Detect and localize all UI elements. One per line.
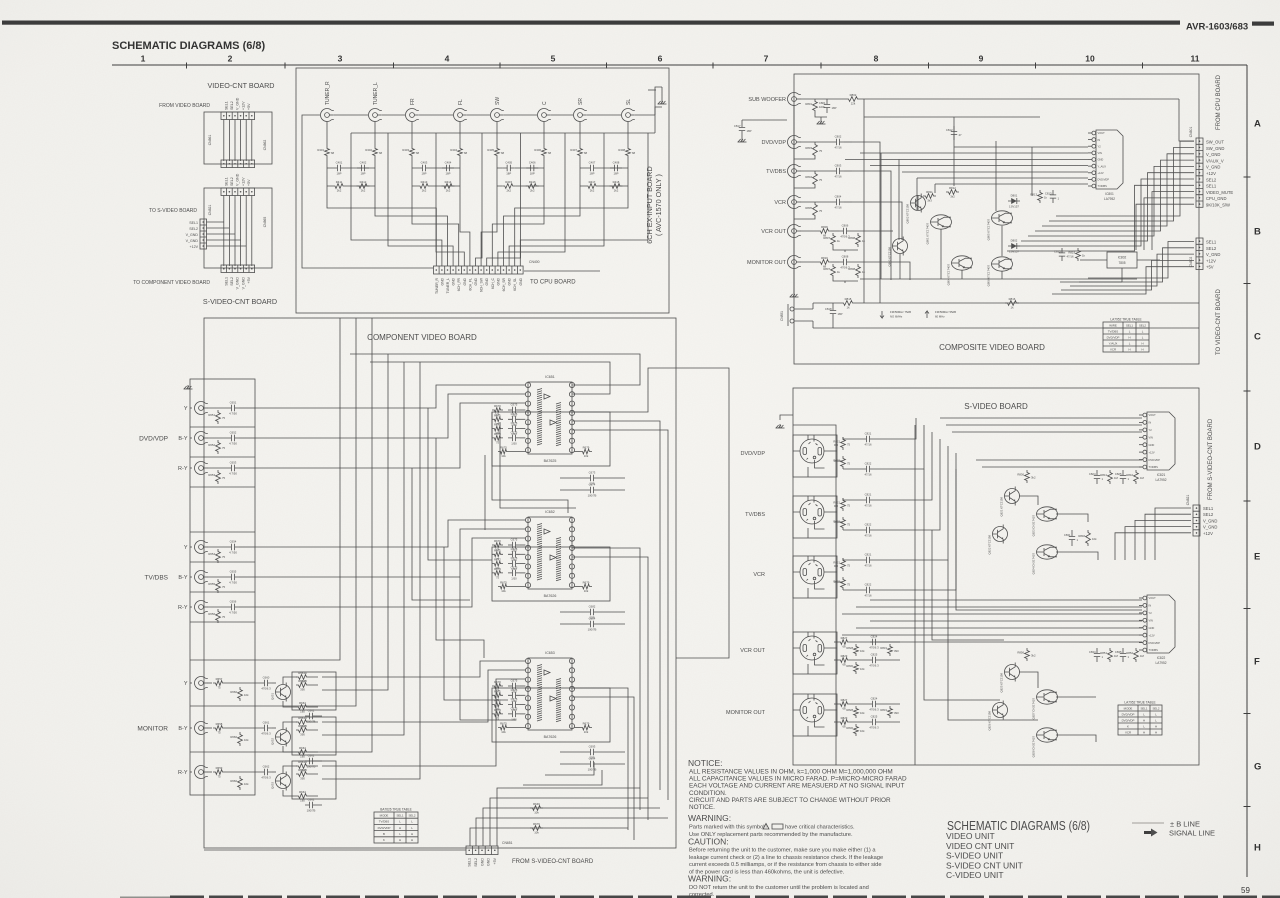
svg-text:2k2: 2k2 [422, 189, 427, 193]
component video board outline [204, 318, 676, 848]
svg-text:FM/56MHz 75dB: FM/56MHz 75dB [890, 310, 911, 314]
svg-text:V_GND: V_GND [236, 97, 240, 110]
svg-text:BA7626 TRUE TABLE: BA7626 TRUE TABLE [380, 808, 412, 812]
svg-text:C834: C834 [1089, 650, 1096, 654]
svg-text:BA7626: BA7626 [544, 594, 557, 598]
op-amp switch IC652 BA7626 [492, 510, 610, 601]
svg-text:Y2: Y2 [1149, 428, 1153, 432]
svg-text:H: H [1143, 730, 1145, 734]
svg-text:DVD/VDP: DVD/VDP [1107, 335, 1120, 339]
capacitor C812 [946, 126, 962, 140]
svg-text:V_GND: V_GND [186, 233, 199, 237]
svg-text:SEL1: SEL1 [189, 221, 198, 225]
svg-text:180: 180 [300, 799, 305, 803]
svg-text:WARNING:: WARNING: [688, 813, 731, 823]
svg-text:R804: R804 [805, 175, 812, 179]
svg-text:C655: C655 [230, 570, 237, 574]
svg-text:75: 75 [222, 446, 226, 450]
svg-text:GND: GND [440, 277, 444, 285]
svg-text:R-Y: R-Y [178, 770, 188, 776]
svg-text:C808: C808 [842, 255, 849, 259]
connector CN801 [1189, 127, 1203, 208]
svg-text:H: H [399, 826, 401, 830]
svg-text:3: 3 [338, 54, 343, 64]
svg-text:Y/AUX: Y/AUX [1109, 341, 1118, 345]
jack R-Y row 6 [178, 601, 208, 614]
ground 6ch board [648, 87, 667, 104]
svg-text:68: 68 [501, 151, 505, 155]
video switch IC821 LA7952 [1139, 412, 1175, 482]
label TO VIDEO-CNT BOARD [1216, 289, 1222, 355]
svg-text:1SV157: 1SV157 [1009, 250, 1019, 254]
svg-text:68: 68 [632, 151, 636, 155]
svg-text:R663A: R663A [298, 671, 307, 675]
svg-text:Q651: Q651 [271, 693, 275, 700]
connector CN400 pin labels [435, 277, 523, 294]
svg-text:SEL1: SEL1 [396, 813, 403, 817]
monitor drive circuit row 1 [208, 671, 337, 724]
svg-text:390: 390 [300, 777, 305, 781]
svg-text:R821: R821 [833, 440, 840, 444]
svg-text:VIDEO-CNT BOARD: VIDEO-CNT BOARD [208, 81, 275, 90]
svg-text:SEL1: SEL1 [1126, 323, 1133, 327]
svg-text:C824: C824 [1089, 472, 1096, 476]
svg-text:47/16: 47/16 [865, 443, 872, 447]
svg-text:CN865: CN865 [263, 217, 267, 228]
svg-text:10k: 10k [501, 589, 506, 593]
svg-text:R811: R811 [926, 190, 933, 194]
svg-text:TUNER_R: TUNER_R [325, 81, 331, 105]
svg-text:2k2: 2k2 [446, 189, 451, 193]
jack TUNER_L [369, 82, 382, 122]
svg-text:470/6.3: 470/6.3 [261, 776, 271, 780]
svg-text:DVD/VDP: DVD/VDP [1149, 458, 1161, 462]
connector CN822 pin labels [186, 221, 199, 249]
svg-text:C822: C822 [865, 523, 872, 527]
svg-text:R656: R656 [208, 612, 215, 616]
svg-text:3k2: 3k2 [1031, 476, 1036, 480]
s-video connector TV/DBS [745, 496, 837, 538]
svg-text:C682: C682 [589, 605, 596, 609]
svg-text:C405: C405 [505, 161, 512, 165]
svg-text:10k: 10k [860, 649, 865, 653]
svg-text:R670: R670 [494, 680, 501, 684]
svg-text:75: 75 [222, 555, 226, 559]
ground s-video [776, 415, 794, 428]
svg-text:Q802 KTC3198: Q802 KTC3198 [906, 204, 910, 224]
svg-text:SEL2: SEL2 [1152, 706, 1159, 710]
svg-text:R830: R830 [846, 664, 853, 668]
svg-text:+12V: +12V [1203, 531, 1213, 536]
svg-text:75: 75 [222, 585, 226, 589]
svg-text:SEL2: SEL2 [1139, 323, 1146, 327]
svg-text:+12V: +12V [190, 245, 199, 249]
capacitor C831 [1064, 530, 1079, 546]
svg-text:390: 390 [894, 711, 899, 715]
svg-text:10k: 10k [860, 729, 865, 733]
jack Y row 1 [184, 402, 208, 415]
svg-text:CPU_GND: CPU_GND [1206, 196, 1226, 201]
svg-text:VCR: VCR [1110, 347, 1116, 351]
top ruler with column numbers [112, 54, 1247, 69]
connector CN822 [200, 219, 207, 249]
resistor R818 [813, 297, 1199, 310]
svg-text:Q822 KTC3198: Q822 KTC3198 [988, 535, 992, 555]
svg-text:18P: 18P [838, 312, 843, 316]
svg-text:R842: R842 [1126, 473, 1133, 477]
svg-text:C656: C656 [230, 600, 237, 604]
svg-text:C825: C825 [1115, 472, 1122, 476]
svg-text:100/7B: 100/7B [307, 765, 316, 769]
6ch ex-input board outline [296, 68, 669, 313]
svg-text:CN851: CN851 [780, 311, 784, 321]
composite video board outline [794, 74, 1199, 364]
svg-text:18P: 18P [446, 172, 451, 176]
svg-text:Q828 CH31741S: Q828 CH31741S [1032, 736, 1036, 757]
svg-text:R807: R807 [823, 267, 830, 271]
transistor Q822 [988, 525, 1008, 555]
svg-text:H: H [1128, 335, 1130, 339]
svg-text:MODE: MODE [380, 813, 389, 817]
svg-text:R829: R829 [841, 716, 848, 720]
svg-text:R675: R675 [500, 581, 507, 585]
svg-text:C812: C812 [946, 128, 953, 132]
svg-text:GND: GND [474, 277, 478, 285]
svg-text:C661: C661 [263, 721, 270, 725]
svg-text:75: 75 [222, 416, 226, 420]
svg-text:R413: R413 [421, 180, 428, 184]
svg-text:68: 68 [464, 151, 468, 155]
svg-text:C-VIDEO UNIT: C-VIDEO UNIT [946, 870, 1004, 880]
svg-text:SEL1: SEL1 [225, 177, 229, 186]
routing wires s-video [793, 418, 1142, 765]
svg-text:C693: C693 [589, 745, 596, 749]
svg-text:GND: GND [452, 277, 456, 285]
svg-text:18P: 18P [590, 172, 595, 176]
svg-text:MONITOR OUT: MONITOR OUT [747, 260, 787, 266]
svg-text:C821: C821 [865, 493, 872, 497]
svg-text:R657: R657 [216, 677, 223, 681]
svg-text:10k: 10k [534, 811, 539, 815]
svg-text:VCR OUT: VCR OUT [740, 648, 765, 654]
svg-text:GND: GND [487, 858, 491, 866]
top rule bar [2, 21, 1180, 25]
s-video board title [964, 402, 1028, 411]
transistor Q828 [1032, 728, 1058, 758]
svg-text:C652: C652 [230, 431, 237, 435]
svg-text:Q805 KTC1740S: Q805 KTC1740S [987, 219, 991, 240]
svg-text:R671: R671 [494, 548, 501, 552]
svg-text:R416: R416 [529, 180, 536, 184]
connector CN802 [1189, 238, 1203, 270]
svg-text:10k: 10k [584, 454, 589, 458]
svg-text:R672: R672 [494, 558, 501, 562]
jack Y row 4 [184, 540, 208, 553]
svg-text:C818: C818 [825, 307, 832, 311]
svg-text:LA7952: LA7952 [1104, 197, 1115, 201]
svg-text:SCHEMATIC DIAGRAMS (6/8): SCHEMATIC DIAGRAMS (6/8) [112, 40, 266, 52]
svg-text:18P: 18P [832, 106, 837, 110]
svg-text:1SV157: 1SV157 [1009, 205, 1019, 209]
svg-text:R417: R417 [589, 180, 596, 184]
svg-text:NO 6MHz: NO 6MHz [890, 315, 903, 319]
transistor Q821 [1000, 487, 1020, 517]
s-video connector VCR [753, 556, 837, 598]
s-video board outline [793, 388, 1199, 765]
svg-text:18P: 18P [361, 172, 366, 176]
svg-text:H: H [1128, 347, 1130, 351]
svg-text:R-Y: R-Y [178, 605, 188, 611]
svg-text:VOUT: VOUT [1098, 131, 1106, 135]
svg-text:LA7952 TRUE TABLE: LA7952 TRUE TABLE [1124, 701, 1155, 705]
svg-text:NOTICE:: NOTICE: [688, 758, 722, 768]
svg-text:C402: C402 [360, 161, 367, 165]
svg-text:18P: 18P [506, 172, 511, 176]
rc networks 6ch channels [317, 122, 635, 197]
svg-text:C806: C806 [842, 224, 849, 228]
jack SR [574, 98, 587, 122]
jack VCR OUT [761, 225, 801, 238]
svg-text:FROM S-VIDEO-CNT BOARD: FROM S-VIDEO-CNT BOARD [1208, 418, 1214, 500]
svg-text:TV/DBS: TV/DBS [145, 575, 169, 582]
transistor Q824 [1032, 545, 1058, 575]
svg-text:4.7/50: 4.7/50 [229, 472, 237, 476]
svg-text:18P: 18P [337, 172, 342, 176]
svg-text:8: 8 [874, 54, 879, 64]
svg-text:2k2: 2k2 [590, 189, 595, 193]
s-video output networks [834, 635, 900, 737]
wire 6ch ground bus [351, 107, 662, 133]
svg-text:R673: R673 [494, 708, 501, 712]
svg-text:VOUT: VOUT [1149, 596, 1157, 600]
svg-text:+5V: +5V [1206, 265, 1214, 270]
svg-text:R816: R816 [1009, 297, 1016, 301]
svg-text:C824: C824 [871, 697, 878, 701]
svg-text:C675: C675 [511, 697, 518, 701]
svg-text:GND: GND [1149, 443, 1155, 447]
svg-text:C675: C675 [511, 421, 518, 425]
connector CN821 [1186, 495, 1200, 536]
svg-text:R649: R649 [533, 802, 540, 806]
svg-text:FROM S-VIDEO-CNT BOARD: FROM S-VIDEO-CNT BOARD [512, 859, 594, 865]
board title VIDEO-CNT BOARD [208, 81, 275, 90]
jack B-Y row 8 [178, 721, 207, 734]
label FROM S-VIDEO-CNT BOARD vertical [1208, 418, 1214, 500]
label FROM S-VIDEO-CNT BOARD [512, 859, 594, 865]
svg-text:TV/DBS: TV/DBS [745, 512, 765, 518]
input network VCR [794, 195, 852, 220]
svg-text:H: H [1254, 843, 1261, 854]
svg-text:11: 11 [1191, 54, 1200, 64]
svg-text:SEL2: SEL2 [189, 227, 198, 231]
composite board title [939, 343, 1045, 352]
page number 59 [1241, 886, 1250, 895]
svg-text:47/16: 47/16 [835, 175, 842, 179]
connector CN863 [221, 160, 255, 168]
svg-text:H: H [1141, 341, 1143, 345]
warning marks composite [880, 310, 956, 319]
svg-text:R803: R803 [805, 146, 812, 150]
svg-text:TO VIDEO-CNT BOARD: TO VIDEO-CNT BOARD [1216, 289, 1222, 355]
svg-text:75: 75 [222, 615, 226, 619]
s-video connector MONITOR OUT [726, 694, 837, 736]
svg-text:ALL CAPACITANCE VALUES IN MICR: ALL CAPACITANCE VALUES IN MICRO FARAD. P… [689, 776, 907, 783]
connector CN864 [221, 188, 255, 196]
svg-text:10k: 10k [860, 711, 865, 715]
6ch board title [645, 166, 663, 243]
svg-text:S-VIDEO-CNT BOARD: S-VIDEO-CNT BOARD [203, 297, 277, 306]
svg-text:D801: D801 [1011, 194, 1018, 198]
svg-text:H: H [1155, 724, 1157, 728]
svg-text:IN: IN [1098, 138, 1101, 142]
svg-text:DVD/VDP: DVD/VDP [1122, 718, 1135, 722]
svg-text:100k: 100k [819, 105, 826, 109]
svg-text:C813: C813 [1045, 192, 1052, 196]
svg-text:VIDEO CNT UNIT: VIDEO CNT UNIT [946, 841, 1014, 851]
jack B-Y row 2 [178, 432, 207, 445]
svg-text:A: A [1254, 119, 1261, 130]
truth table LA7952 s-video [1118, 701, 1162, 736]
wire 6ch jack bus [334, 87, 662, 115]
svg-text:1M: 1M [1140, 654, 1145, 658]
svg-text:R802: R802 [850, 93, 857, 97]
svg-text:C673: C673 [589, 471, 596, 475]
svg-text:GND: GND [508, 277, 512, 285]
svg-text:DVD/VDP: DVD/VDP [1149, 641, 1161, 645]
svg-text:470/6.3: 470/6.3 [869, 646, 879, 650]
svg-text:75: 75 [847, 583, 851, 587]
svg-text:Q824 CH31741S: Q824 CH31741S [1032, 553, 1036, 574]
svg-text:7805: 7805 [1118, 261, 1125, 265]
capacitor C817 [734, 120, 787, 142]
svg-text:R652: R652 [208, 443, 215, 447]
svg-text:R675: R675 [500, 722, 507, 726]
svg-text:CN821: CN821 [208, 205, 212, 216]
svg-text:75: 75 [847, 504, 851, 508]
svg-text:10k: 10k [244, 693, 249, 697]
jack FL [454, 99, 467, 122]
group label MONITOR [137, 726, 168, 733]
svg-text:R816: R816 [821, 256, 828, 260]
svg-text:C831: C831 [1064, 533, 1071, 537]
svg-text:R670: R670 [494, 404, 501, 408]
group label DVD/VDP [139, 436, 168, 443]
svg-text:47/16: 47/16 [835, 146, 842, 150]
svg-text:R655: R655 [208, 582, 215, 586]
svg-text:TUNER_R: TUNER_R [435, 277, 439, 294]
svg-text:COMPONENT VIDEO BOARD: COMPONENT VIDEO BOARD [367, 333, 477, 342]
s-video connector DVD/VDP [741, 435, 837, 477]
svg-text:TO S-VIDEO BOARD: TO S-VIDEO BOARD [149, 208, 197, 214]
svg-text:K: K [383, 838, 385, 842]
svg-text:75: 75 [819, 178, 823, 182]
wire bus video-cnt lower [224, 196, 252, 267]
svg-text:+12V: +12V [1206, 258, 1216, 263]
svg-text:H: H [411, 832, 413, 836]
connector CN801 pin labels [1206, 140, 1233, 208]
jack B-Y row 5 [178, 571, 207, 584]
video switch IC801 LA7952 [1088, 130, 1123, 201]
svg-text:R830: R830 [846, 726, 853, 730]
svg-text:CN400: CN400 [529, 260, 540, 264]
routing wires composite [845, 117, 1137, 303]
svg-text:100/7B: 100/7B [307, 720, 316, 724]
transistor Q804 [947, 256, 973, 286]
svg-text:Q823 CH31741S: Q823 CH31741S [1032, 515, 1036, 536]
svg-text:R408: R408 [618, 148, 625, 152]
svg-text:Q652: Q652 [271, 738, 275, 745]
svg-text:SEL1: SEL1 [1206, 240, 1217, 245]
svg-text:C821: C821 [865, 553, 872, 557]
svg-text:SW_OUT: SW_OUT [1206, 140, 1224, 145]
svg-text:390: 390 [300, 733, 305, 737]
resistor R856 [1017, 648, 1036, 661]
ground verticals 6ch [351, 133, 604, 186]
wires s-video to CN821 [1115, 508, 1191, 560]
wire 6ch left edge [302, 115, 433, 268]
svg-text:C684: C684 [589, 617, 596, 621]
subwoofer input network [801, 93, 1195, 141]
svg-text:C661: C661 [308, 798, 315, 802]
svg-text:VCR: VCR [774, 200, 786, 206]
svg-text:Q826 KTC3198: Q826 KTC3198 [988, 711, 992, 731]
svg-text:75: 75 [819, 149, 823, 153]
svg-text:± B LINE: ± B LINE [1170, 820, 1200, 829]
transistor Q803 [888, 237, 908, 267]
svg-text:WIRE: WIRE [1109, 323, 1117, 327]
jack R-Y row 3 [178, 462, 208, 475]
svg-text:75: 75 [847, 443, 851, 447]
svg-text:C401: C401 [336, 161, 343, 165]
svg-text:ALL RESISTANCE VALUES IN OHM,: ALL RESISTANCE VALUES IN OHM, k=1,000 OH… [689, 769, 893, 776]
svg-text:TV/DBS: TV/DBS [766, 169, 786, 175]
svg-text:R818: R818 [845, 297, 852, 301]
svg-text:10k: 10k [584, 589, 589, 593]
svg-text:MONITOR: MONITOR [137, 726, 168, 733]
svg-text:R406: R406 [534, 148, 541, 152]
svg-text:R679: R679 [583, 722, 590, 726]
svg-text:AVR-1603/683: AVR-1603/683 [1186, 22, 1248, 33]
svg-text:COMPOSITE VIDEO BOARD: COMPOSITE VIDEO BOARD [939, 343, 1045, 352]
svg-text:C407: C407 [589, 161, 596, 165]
svg-text:V_GND: V_GND [236, 277, 240, 290]
svg-text:47/16: 47/16 [1067, 255, 1074, 259]
svg-text:R658: R658 [216, 722, 223, 726]
jack TV/DBS [766, 165, 801, 178]
svg-text:S-VIDEO CNT UNIT: S-VIDEO CNT UNIT [946, 860, 1023, 870]
output network MONITOR OUT [801, 255, 881, 284]
svg-text:1/50: 1/50 [511, 441, 517, 445]
svg-text:IC801: IC801 [1105, 192, 1114, 196]
svg-text:C822: C822 [865, 462, 872, 466]
svg-text:MODE: MODE [1124, 706, 1133, 710]
svg-text:V_GND: V_GND [1203, 525, 1217, 530]
svg-text:IC651: IC651 [545, 375, 555, 379]
svg-text:47/16: 47/16 [865, 473, 872, 477]
svg-text:G: G [1254, 762, 1261, 773]
svg-text:+5V: +5V [247, 276, 251, 283]
svg-text:SEL1: SEL1 [468, 858, 472, 867]
svg-text:S-VIDEO BOARD: S-VIDEO BOARD [964, 402, 1028, 411]
svg-text:R403: R403 [402, 148, 409, 152]
svg-text:1/50: 1/50 [511, 576, 517, 580]
svg-text:6: 6 [658, 54, 663, 64]
svg-text:6CH_SL: 6CH_SL [513, 278, 517, 291]
svg-text:B: B [383, 832, 385, 836]
svg-text:C662: C662 [263, 765, 270, 769]
svg-text:18P: 18P [614, 172, 619, 176]
svg-text:R671: R671 [494, 413, 501, 417]
